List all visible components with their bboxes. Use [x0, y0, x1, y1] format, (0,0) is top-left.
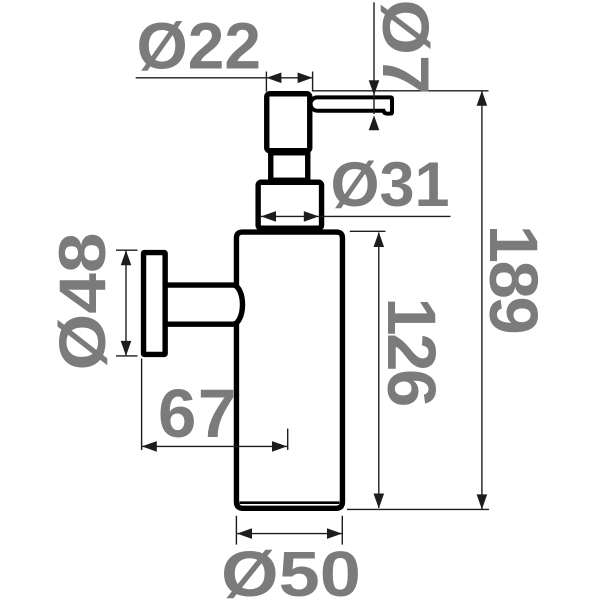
svg-text:Ø50: Ø50	[221, 538, 361, 600]
svg-text:67: 67	[158, 375, 238, 452]
svg-text:Ø7: Ø7	[369, 0, 443, 95]
svg-text:Ø31: Ø31	[331, 150, 450, 220]
svg-text:126: 126	[373, 297, 450, 405]
svg-text:Ø22: Ø22	[137, 9, 262, 83]
svg-text:189: 189	[475, 225, 552, 333]
svg-text:Ø48: Ø48	[45, 233, 119, 371]
